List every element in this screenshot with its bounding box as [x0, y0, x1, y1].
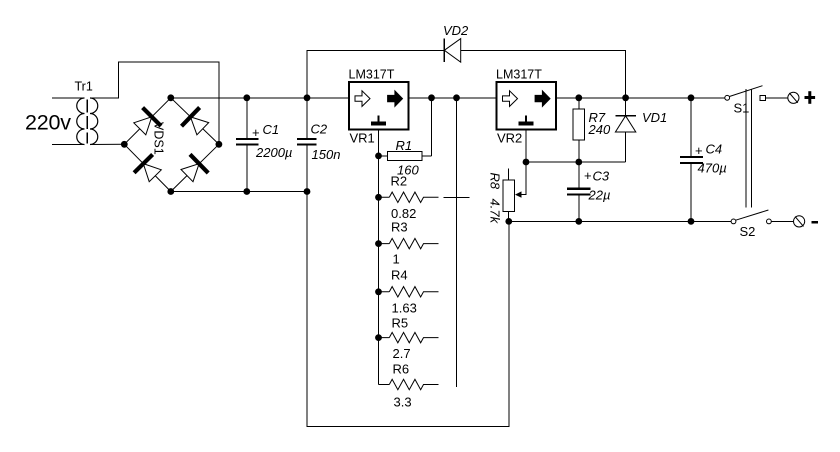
svg-text:150n: 150n [312, 147, 341, 162]
wire: + rail from bridge top to VR1 [171, 97, 349, 99]
svg-text:+: + [584, 168, 592, 183]
node R7 top [575, 94, 582, 101]
potentiometer R8 [503, 168, 515, 221]
node bridge top [167, 94, 174, 101]
svg-text:220v: 220v [25, 111, 71, 135]
wire: bridge diamond sides [124, 98, 219, 192]
svg-text:C4: C4 [706, 142, 723, 157]
svg-text:VD2: VD2 [443, 23, 469, 38]
svg-text:+: + [252, 125, 260, 140]
svg-text:LM317T: LM317T [496, 68, 542, 82]
regulator U VR1 box [349, 82, 409, 130]
svg-text:C2: C2 [311, 122, 328, 137]
svg-text:1.63: 1.63 [392, 301, 417, 316]
svg-text:R8: R8 [488, 173, 503, 190]
node C2 top [304, 94, 311, 101]
node bridge bottom [167, 188, 174, 195]
svg-text:LM317T: LM317T [349, 68, 395, 82]
svg-text:R4: R4 [391, 268, 408, 283]
bridge diode VDS1 top-left [134, 108, 161, 135]
wire: ADJ down to R8 wiper [518, 162, 527, 195]
VR1 adj symbol [378, 116, 380, 122]
R8 wiper arrowhead [515, 191, 522, 197]
wire: secondary bottom to bridge left node [90, 143, 124, 145]
wire: ground rail from bridge bottom to C2 [171, 191, 307, 193]
node bridge left [121, 141, 128, 148]
svg-text:240: 240 [588, 122, 611, 137]
output terminal - [794, 216, 805, 227]
node C4 bottom [688, 218, 695, 225]
capacitor C4 [680, 98, 703, 222]
svg-text:2.7: 2.7 [393, 346, 411, 361]
node C2 bottom [304, 188, 311, 195]
VR2 output arrow (filled) [535, 91, 550, 107]
node R8 bottom [505, 218, 512, 225]
wire: VR1 ADJ bus [378, 130, 380, 385]
capacitor C1 [236, 98, 258, 192]
svg-text:470µ: 470µ [698, 161, 727, 176]
node VD1 top [622, 94, 629, 101]
label - output [812, 221, 819, 224]
transformer Tr1 primary winding [77, 98, 85, 145]
resistor R3 [379, 238, 439, 248]
wire: negative rail from R8 node to S2 [509, 220, 731, 222]
wire: secondary top to AC jog [90, 62, 219, 144]
bridge diode VDS1 bottom-right [181, 154, 208, 181]
resistor R6 [379, 379, 439, 389]
node C3 bottom [575, 218, 582, 225]
resistor R5 [379, 332, 439, 342]
node C1 top [243, 94, 250, 101]
node bridge right [216, 141, 223, 148]
diode VD2 [444, 39, 460, 63]
node R7 bottom [575, 159, 582, 166]
wire: VR2 ADJ stem down [525, 130, 527, 163]
svg-text:22µ: 22µ [588, 188, 611, 203]
wire: ADJ line to R7/VD1 [526, 161, 626, 163]
wire: 220v primary top lead [52, 97, 85, 99]
wire: VD2 bypass riser and top wire [307, 50, 626, 98]
VR1 input arrow (open) [355, 91, 370, 107]
wire: selector riser from + rail [456, 98, 458, 387]
svg-text:1: 1 [393, 252, 400, 267]
resistor R1 [379, 98, 432, 161]
svg-text:S1: S1 [734, 101, 750, 116]
mechanical link S1-S2 [745, 89, 747, 208]
node R1 riser on rail [428, 94, 435, 101]
svg-text:S2: S2 [740, 224, 756, 239]
transformer Tr1 core (dashed) [86, 100, 88, 144]
VR2 input arrow (open) [503, 91, 518, 107]
svg-text:R5: R5 [392, 316, 409, 331]
svg-text:Tr1: Tr1 [75, 80, 93, 94]
svg-text:C3: C3 [593, 169, 610, 184]
svg-text:VD1: VD1 [642, 110, 667, 125]
bridge diode VDS1 bottom-left [134, 155, 161, 182]
bridge diode VDS1 top-right [182, 108, 209, 135]
switch S2 [731, 210, 793, 224]
diode VD1 [615, 98, 635, 162]
regulator U VR2 box [497, 82, 557, 130]
node ADJ bus R3 [375, 240, 382, 247]
svg-text:2200µ: 2200µ [255, 145, 292, 160]
svg-text:3.3: 3.3 [394, 395, 412, 410]
node ADJ bus R5 [375, 334, 382, 341]
label + output [805, 91, 816, 104]
capacitor C2 [297, 98, 317, 192]
VR1 output arrow (filled) [388, 91, 403, 107]
svg-text:R6: R6 [393, 362, 410, 377]
node ADJ bus R2 [375, 194, 382, 201]
svg-text:C1: C1 [263, 122, 280, 137]
selector contact at R2 [444, 196, 470, 198]
wire: rail VR1 out to VR2 in [409, 97, 497, 99]
node selector riser on rail [453, 94, 460, 101]
svg-text:4.7k: 4.7k [488, 199, 503, 225]
node ADJ bus R4 [375, 288, 382, 295]
wire: big return loop from C2 bottom around ladder to R8 bottom [307, 192, 509, 427]
resistor R2 [379, 192, 439, 202]
svg-text:R3: R3 [391, 220, 408, 235]
VR2 adj symbol [525, 116, 527, 122]
resistor R4 [379, 287, 439, 297]
svg-text:VR2: VR2 [497, 131, 522, 146]
capacitor C3 [567, 162, 590, 221]
node ADJ bus R1 [375, 153, 382, 160]
svg-text:R2: R2 [391, 174, 408, 189]
svg-text:VDS1: VDS1 [152, 122, 166, 155]
node VR2 ADJ [523, 159, 530, 166]
svg-text:VR1: VR1 [350, 131, 375, 146]
switch S1 [725, 86, 788, 101]
wire: rail VR2 out to S1 [556, 97, 725, 99]
svg-text:+: + [695, 143, 703, 158]
resistor R7 [573, 98, 584, 162]
svg-text:R1: R1 [396, 138, 413, 153]
wire: 220v primary bottom lead [52, 144, 85, 146]
output terminal + [788, 92, 799, 103]
transformer Tr1 secondary winding [90, 98, 98, 145]
node C4 top [688, 94, 695, 101]
node C1 bottom [243, 188, 250, 195]
